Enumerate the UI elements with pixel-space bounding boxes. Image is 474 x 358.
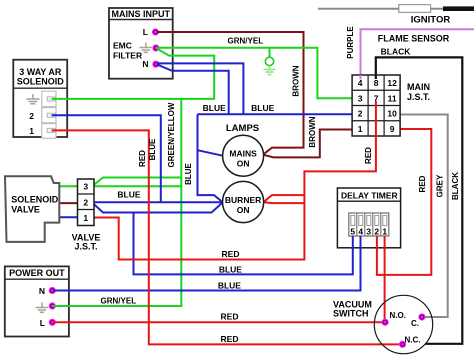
wire black thick: ignitor tip [443,6,474,11]
svg-text:2: 2 [374,227,379,237]
svg-text:VALVE: VALVE [11,205,40,215]
wire blue: solenoid valve to valve J.S.T. pin 1 [59,216,77,218]
svg-text:2: 2 [358,109,363,119]
svg-text:RED: RED [138,150,147,167]
box SOLENOID VALVE [5,176,59,242]
wire blue: junction down to DELAY TIMER pin 5 [134,213,353,275]
svg-text:LAMPS: LAMPS [226,123,259,134]
ground symbol 3-way [26,94,39,104]
svg-text:GRN/YEL: GRN/YEL [101,297,137,306]
svg-text:BLUE: BLUE [184,162,193,184]
svg-text:GREEN/YELLOW: GREEN/YELLOW [167,102,176,167]
wire brown L: EMC filter L to MAINS ON lamp [157,32,304,154]
wire green: solenoid valve to valve J.S.T. pin 3 [59,185,77,187]
svg-text:N.C.: N.C. [405,336,421,345]
svg-text:BLUE: BLUE [117,190,140,200]
ground earth symbol (light green) [264,66,276,75]
svg-text:2: 2 [83,197,88,207]
connector pins 3-way (ground,2,1) [42,91,56,138]
svg-text:3 WAY AR: 3 WAY AR [19,67,62,77]
svg-text:ON: ON [237,205,250,215]
svg-text:SOLENOID: SOLENOID [11,195,59,205]
lamp MAINS ON [223,135,264,176]
svg-text:11: 11 [388,93,397,103]
wire purple: flame sensor to MAIN J.S.T. pin 4 [361,29,474,75]
wire blue: valve J.S.T. pin 2 lower to BURNER ON [94,203,222,213]
svg-text:DELAY TIMER: DELAY TIMER [341,190,398,200]
terminal POWER OUT ground [49,302,56,309]
svg-text:SWITCH: SWITCH [333,309,369,319]
svg-text:POWER OUT: POWER OUT [9,268,65,278]
svg-text:1: 1 [358,124,363,134]
svg-text:GRN/YEL: GRN/YEL [228,36,264,45]
wire green vertical GREEN/YELLOW: junction down to POWER OUT ground [53,99,181,306]
wire red: MAIN J.S.T. pin 9 to DELAY TIMER pin 2 [377,129,431,275]
svg-text:IGNITOR: IGNITOR [411,14,451,25]
svg-text:8: 8 [374,78,379,88]
vacuum switch [333,295,433,353]
wire green: EMC ground diagonal to 3-way solenoid ground pin [51,49,214,99]
box 3 WAY AR SOLENOID [13,60,67,137]
wire purple: stub into pin 4 cell [360,75,362,80]
wire stub green EMC ground [157,48,174,56]
svg-text:1: 1 [83,213,88,223]
svg-text:BLACK: BLACK [451,172,460,200]
svg-text:BLUE: BLUE [203,103,226,113]
wire blue: branch to MAINS ON lamp [198,150,223,156]
svg-text:RED: RED [364,147,373,164]
wire red: MAIN J.S.T. pin 7 to BURNER ON and valve pin 1 (outside grid part) [94,140,376,260]
ground symbol POWER OUT [36,303,49,313]
svg-text:N: N [39,286,45,296]
ignitor element body [399,5,431,13]
wire stub blue POWER OUT N [53,290,71,292]
svg-text:RED: RED [222,249,240,259]
svg-text:J.S.T.: J.S.T. [74,242,97,252]
wire black: flame sensor to MAIN J.S.T. pin 8 and vacuum switch [376,57,463,343]
svg-text:BLUE: BLUE [218,281,241,291]
wire red: 3-way solenoid pin 1 to vacuum switch N.C. [51,130,403,344]
wire blue: EMC N diagonal branch [157,64,229,114]
svg-text:N: N [142,59,148,69]
svg-text:BLUE: BLUE [251,103,274,113]
wire stub blue 3-way pin 2 [52,114,69,116]
svg-text:3: 3 [366,227,371,237]
wire stub blue EMC N [157,63,174,70]
svg-text:BLACK: BLACK [381,47,412,57]
wire green: earth branch stem [269,48,271,57]
wire stub green POWER OUT ground [53,305,71,307]
svg-text:12: 12 [387,78,397,88]
terminal N [152,61,159,68]
svg-text:EMC: EMC [113,41,132,51]
wire blue: 3-way solenoid pin 2 down [51,115,161,202]
svg-text:RED: RED [221,312,239,322]
wire red: BURNER ON right stubs [264,195,305,203]
wire green: valve J.S.T. pin 3 stubs [94,178,181,187]
svg-text:L: L [40,318,45,328]
svg-text:BLUE: BLUE [219,264,242,274]
svg-text:3: 3 [358,93,363,103]
svg-text:MAINS INPUT: MAINS INPUT [112,9,171,19]
svg-text:1: 1 [29,126,34,136]
svg-text:9: 9 [390,124,395,134]
svg-text:SOLENOID: SOLENOID [17,77,65,87]
wire blue: valve J.S.T. pin 2 upper to BURNER ON [94,201,222,203]
wire red: POWER OUT L to vacuum switch N.O. [53,321,385,323]
svg-text:ON: ON [237,159,250,169]
wire gray: MAIN J.S.T. pin 10 to vacuum switch C. [400,115,448,318]
wire red: pin 7 vertical over grid [375,101,377,140]
wire brown: MAINS ON lamp to MAIN J.S.T. pin 1 [264,130,353,158]
wire green: EMC ground to MAIN J.S.T. pin 3 (GRN/YEL) [157,48,352,98]
wire blue: POWER OUT N to DELAY TIMER pin 4 [53,236,361,291]
svg-text:BURNER: BURNER [225,195,261,205]
wire maroon: solenoid valve to valve J.S.T. pin 2 [59,202,77,204]
terminal N.O. [382,319,389,326]
svg-text:BLUE: BLUE [148,138,157,160]
box DELAY TIMER [337,188,400,248]
pin numbers MAIN J.S.T. [358,78,397,134]
svg-text:3: 3 [83,182,88,192]
svg-text:L: L [143,27,148,37]
wire stub red 3-way pin 1 [52,129,69,131]
svg-text:RED: RED [221,334,239,344]
wire stubs DELAY TIMER pins 5,4,2,1 [352,236,354,249]
ground symbol EMC [140,43,153,53]
terminal C. [418,313,425,320]
svg-text:RED: RED [418,175,427,192]
terminal POWER OUT L [49,319,56,326]
wire black: stub into pin 8 cell [375,75,377,79]
wire stub green 3-way ground pin [52,98,69,100]
svg-text:PURPLE: PURPLE [346,26,355,59]
terminal L [152,28,159,35]
wire blue: lamps neutral vertical [198,114,223,202]
terminal N.C. [399,341,406,348]
box POWER OUT [5,266,69,336]
svg-text:GREY: GREY [435,174,444,197]
wire blue: EMC N to MAIN J.S.T. pin 2 [157,63,352,114]
wire stubs over boxes [52,32,385,322]
svg-text:C.: C. [411,319,419,328]
wire stub brown EMC L [157,31,174,33]
svg-text:2: 2 [29,111,34,121]
svg-text:5: 5 [350,227,355,237]
svg-text:BROWN: BROWN [308,116,317,147]
svg-text:4: 4 [358,227,363,237]
svg-text:J.S.T.: J.S.T. [407,92,430,102]
lamp BURNER ON [223,181,264,222]
svg-text:1: 1 [382,227,387,237]
svg-text:N.O.: N.O. [390,311,406,320]
svg-text:FILTER: FILTER [113,51,142,61]
wire stub red POWER OUT L [53,321,71,323]
terminal POWER OUT N [49,287,56,294]
node earth circle [265,57,273,65]
wire red: DELAY TIMER pin 1 to vacuum switch N.O. [384,236,386,322]
box EMC filter / MAINS INPUT [109,8,173,79]
svg-text:FLAME SENSOR: FLAME SENSOR [378,34,450,44]
terminal ground [152,44,159,51]
svg-text:MAIN: MAIN [407,82,430,92]
connector MAIN J.S.T. grid [352,75,400,136]
connector VALVE J.S.T. [72,179,101,252]
svg-text:10: 10 [387,109,397,119]
svg-text:MAINS: MAINS [229,149,257,159]
svg-text:BROWN: BROWN [292,65,301,96]
wire gray: ignitor lead [318,8,443,10]
